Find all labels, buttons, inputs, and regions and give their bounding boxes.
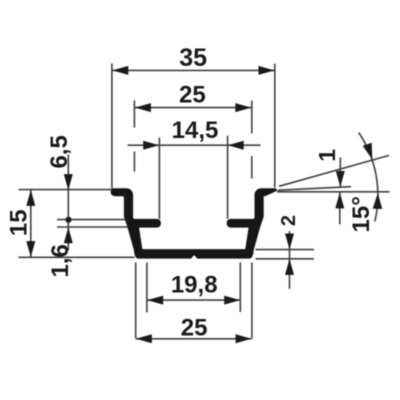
svg-text:15: 15 (6, 209, 33, 236)
svg-text:25: 25 (181, 315, 208, 342)
svg-text:35: 35 (179, 44, 207, 72)
svg-text:25: 25 (179, 82, 206, 109)
svg-text:1: 1 (314, 149, 340, 162)
svg-text:6,5: 6,5 (46, 135, 73, 168)
svg-text:1,6: 1,6 (47, 244, 74, 277)
svg-text:19,8: 19,8 (171, 272, 218, 299)
svg-text:15°: 15° (348, 196, 375, 232)
svg-text:14,5: 14,5 (172, 117, 219, 144)
svg-text:2: 2 (278, 215, 300, 226)
